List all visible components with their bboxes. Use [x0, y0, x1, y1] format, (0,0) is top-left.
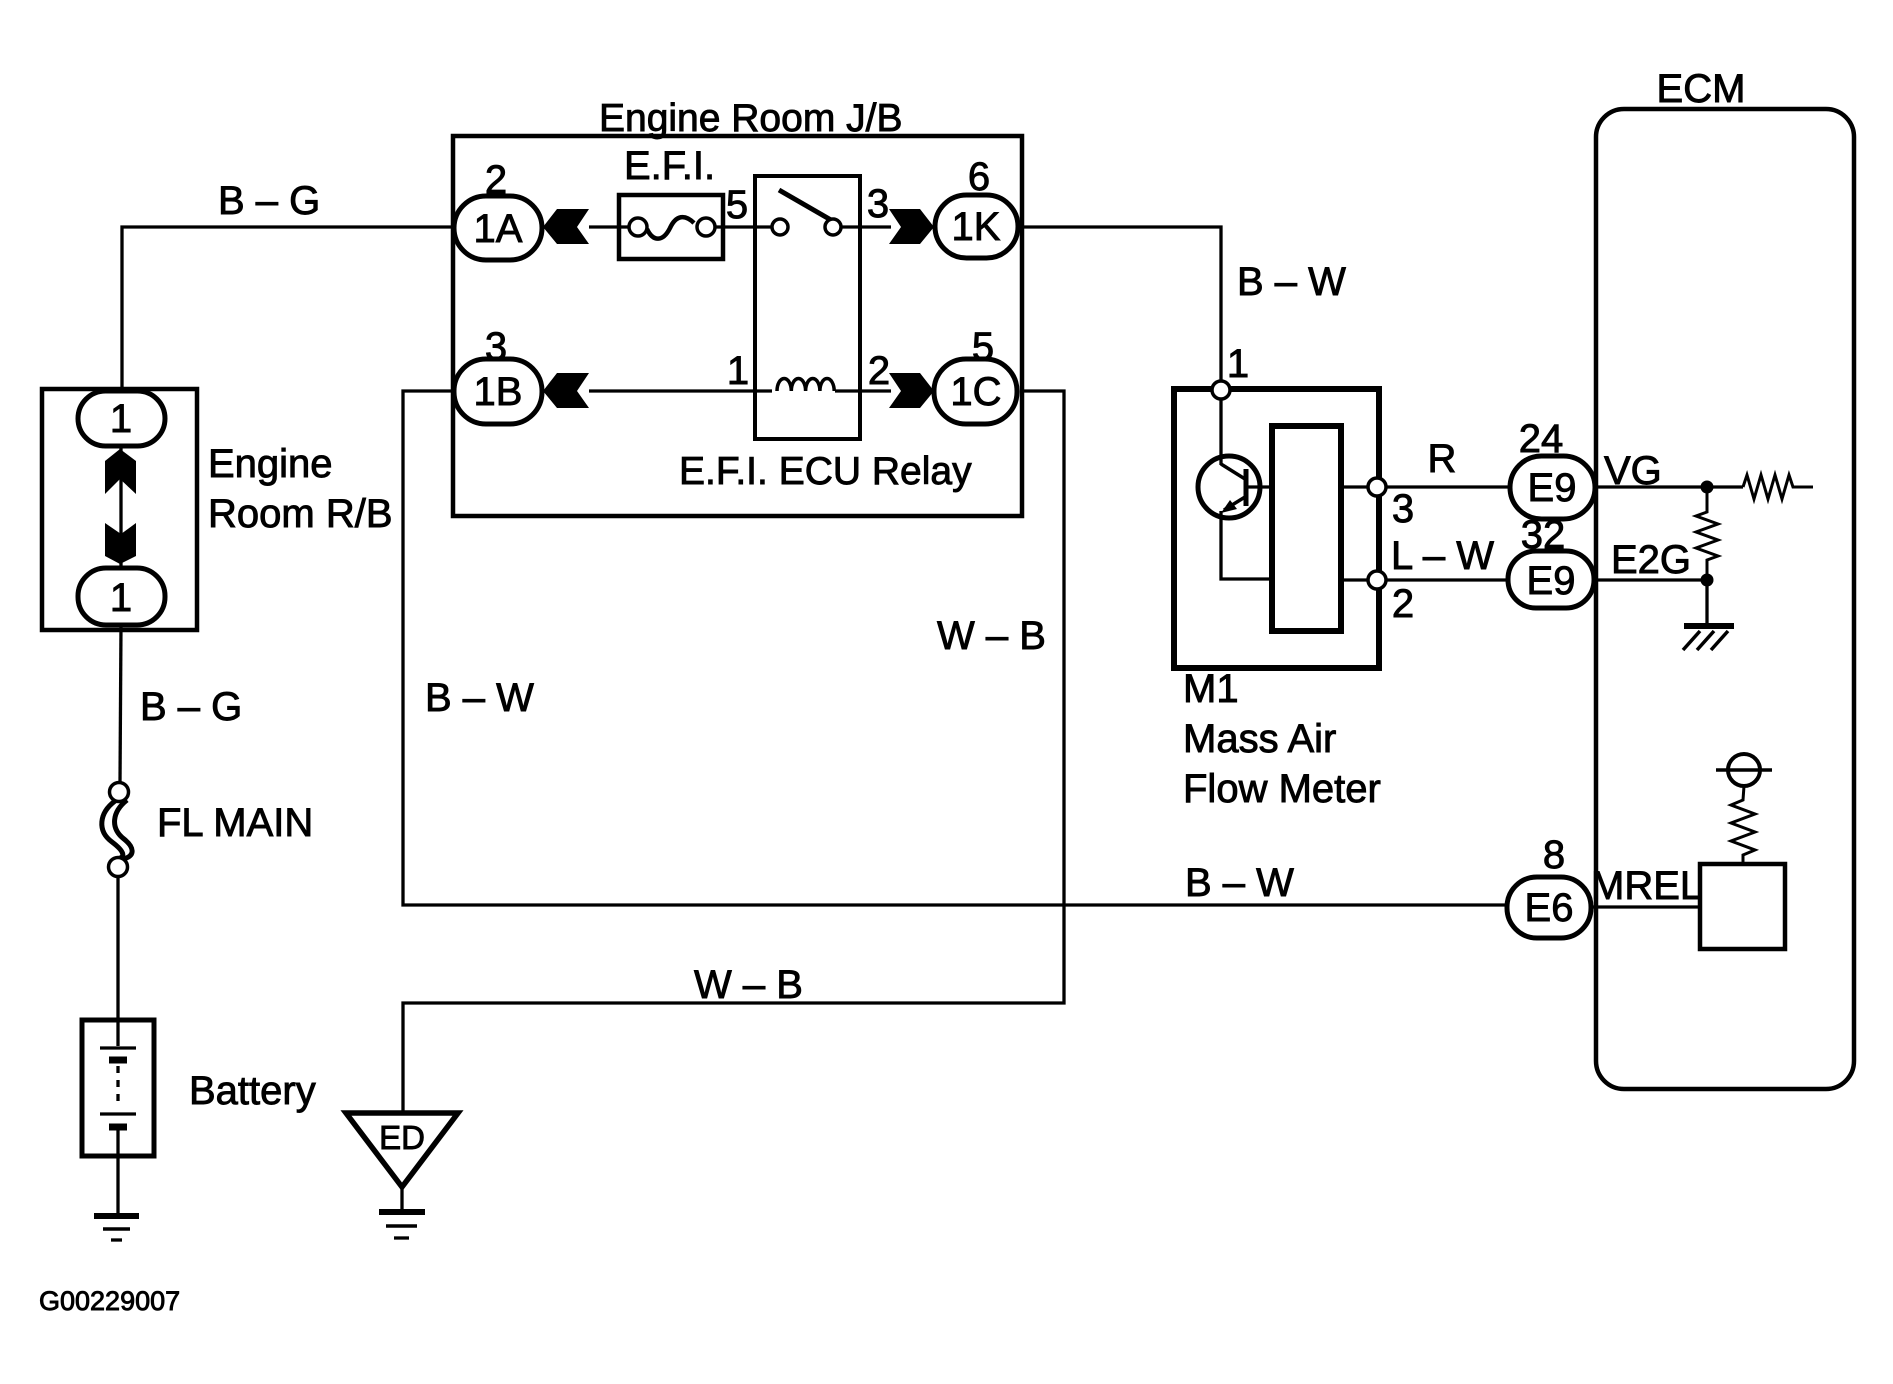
label 32 — [1521, 513, 1566, 557]
svg-text:8: 8 — [1543, 833, 1565, 877]
label B-W (1K to MAF) — [1237, 260, 1346, 304]
relay switch contacts and blade — [772, 190, 860, 235]
svg-text:B – W: B – W — [425, 676, 534, 720]
MAF pin 1 node — [1212, 381, 1230, 399]
svg-text:G00229007: G00229007 — [39, 1286, 180, 1316]
svg-text:5: 5 — [726, 183, 748, 227]
arrow into 1K — [889, 209, 934, 244]
MAF pin 2 node — [1368, 571, 1386, 589]
label VG — [1604, 449, 1662, 493]
svg-text:W – B: W – B — [937, 614, 1046, 658]
svg-text:Mass Air: Mass Air — [1183, 717, 1336, 761]
ground below ED — [379, 1212, 425, 1238]
svg-text:B – W: B – W — [1185, 861, 1294, 905]
wire FL MAIN to battery — [116, 877, 119, 1020]
svg-text:1: 1 — [110, 576, 132, 620]
connector 1 (top of R/B) — [78, 391, 165, 446]
svg-text:L – W: L – W — [1391, 534, 1494, 578]
svg-text:1: 1 — [110, 397, 132, 441]
label pin 2 — [1392, 582, 1414, 626]
svg-text:1A: 1A — [474, 207, 523, 251]
label M1 Mass Air Flow Meter — [1183, 667, 1381, 811]
Engine Room R/B box — [42, 389, 197, 630]
svg-text:5: 5 — [972, 325, 994, 369]
wire B-G from Engine Room R/B to 1A — [122, 227, 454, 391]
driver box in ECM — [1700, 864, 1785, 949]
connector 1K — [935, 195, 1018, 258]
svg-text:Battery: Battery — [189, 1069, 316, 1113]
wire B-W from 1B to E6 MREL — [403, 391, 1507, 905]
svg-text:2: 2 — [485, 158, 507, 202]
svg-text:3: 3 — [1392, 487, 1414, 531]
connector E6 pin 8 — [1507, 877, 1591, 938]
wire coil to 1C arrow — [835, 389, 891, 392]
svg-text:FL MAIN: FL MAIN — [157, 801, 313, 845]
label 24 — [1519, 417, 1564, 461]
connector 1 (bottom of R/B) — [78, 568, 165, 625]
wire transistor emitter to sensing element — [1221, 511, 1272, 579]
svg-text:R: R — [1428, 437, 1457, 481]
node E2G junction — [1701, 574, 1714, 587]
svg-text:E.F.I.: E.F.I. — [624, 144, 715, 188]
relay box E.F.I. ECU Relay — [679, 176, 972, 493]
label B-W (left) — [425, 676, 534, 720]
svg-text:1: 1 — [727, 349, 749, 393]
wire E2G inside ECM — [1594, 578, 1707, 581]
wire L-W from pin2 to E9 — [1386, 578, 1508, 581]
arrow into 1A — [543, 209, 589, 244]
wire element to pin 2 — [1341, 578, 1369, 581]
svg-text:3: 3 — [485, 325, 507, 369]
connector 1C — [934, 359, 1017, 424]
svg-text:1K: 1K — [952, 205, 1001, 249]
power symbol in ECM — [1716, 754, 1772, 786]
battery — [82, 1020, 154, 1156]
pin 2 label of 1A — [485, 158, 507, 202]
svg-text:2: 2 — [868, 349, 890, 393]
svg-text:B – G: B – G — [140, 685, 242, 729]
mass air flow meter box M1 — [1174, 389, 1379, 668]
relay coil — [777, 379, 834, 392]
wire relay to 1K arrow — [860, 225, 891, 228]
MAF pin 3 node — [1368, 478, 1386, 496]
ground below battery — [94, 1216, 139, 1240]
arrow into 1B — [543, 373, 589, 408]
svg-text:Engine: Engine — [208, 442, 333, 486]
svg-text:W – B: W – B — [694, 963, 803, 1007]
svg-text:24: 24 — [1519, 417, 1564, 461]
label ECM — [1657, 67, 1746, 111]
label 8 — [1543, 833, 1565, 877]
svg-text:ECM: ECM — [1657, 67, 1746, 111]
wire ED to ground — [400, 1187, 403, 1209]
pin 5 label of 1C — [972, 325, 994, 369]
wire MREL to driver — [1591, 905, 1700, 908]
wire 1B arrow to relay coil — [589, 389, 772, 392]
label pin 1 of MAF — [1227, 342, 1249, 386]
wire to chassis ground — [1705, 580, 1708, 624]
arrow up in R/B — [105, 449, 136, 494]
fusible link FL MAIN — [102, 783, 132, 877]
label B-G (top) — [218, 179, 320, 223]
connector E9 pin 32 — [1508, 551, 1594, 608]
label MREL — [1591, 864, 1702, 908]
svg-text:B – G: B – G — [218, 179, 320, 223]
svg-text:Room R/B: Room R/B — [208, 492, 393, 536]
connector E9 pin 24 — [1510, 456, 1595, 519]
resistor vertical VG to E2G — [1696, 487, 1718, 580]
wire fuse to relay — [723, 225, 772, 228]
svg-text:1B: 1B — [474, 370, 523, 414]
transistor in MAF — [1198, 456, 1272, 518]
pin 1 label of relay coil — [727, 349, 749, 393]
svg-text:E9: E9 — [1527, 559, 1576, 603]
svg-text:E9: E9 — [1528, 466, 1577, 510]
svg-text:E.F.I. ECU Relay: E.F.I. ECU Relay — [679, 450, 972, 493]
svg-text:2: 2 — [1392, 582, 1414, 626]
svg-text:E2G: E2G — [1611, 538, 1691, 582]
wire W-B from 1C to ED ground — [403, 391, 1064, 1113]
wire R/B to FL MAIN — [120, 625, 121, 783]
resistor horizontal on VG — [1743, 475, 1813, 499]
sensing element of MAF — [1272, 426, 1341, 631]
label G00229007 — [39, 1286, 180, 1316]
svg-text:1C: 1C — [950, 370, 1001, 414]
svg-text:6: 6 — [968, 155, 990, 199]
svg-text:B – W: B – W — [1237, 260, 1346, 304]
wire R from pin3 to E9 — [1386, 485, 1510, 488]
label Engine Room R/B — [208, 442, 393, 536]
svg-text:3: 3 — [867, 182, 889, 226]
label Battery — [189, 1069, 316, 1113]
wire battery to ground — [116, 1156, 119, 1214]
svg-text:Engine Room J/B: Engine Room J/B — [599, 97, 903, 140]
wire VG inside ECM — [1595, 485, 1743, 488]
connector 1B — [454, 359, 542, 424]
pin 3 label of 1B — [485, 325, 507, 369]
label B-G (lower) — [140, 685, 242, 729]
label W-B (lower) — [694, 963, 803, 1007]
pin 6 label of 1K — [968, 155, 990, 199]
label L-W — [1391, 534, 1494, 578]
label W-B (upper) — [937, 614, 1046, 658]
svg-text:MREL: MREL — [1591, 864, 1702, 908]
wire pin1 to transistor — [1219, 399, 1222, 465]
pin 5 label of relay switch — [726, 183, 748, 227]
svg-text:Flow Meter: Flow Meter — [1183, 767, 1381, 811]
Engine Room J/B box — [453, 97, 1022, 516]
arrow down in R/B — [105, 523, 136, 564]
resistor vertical above driver — [1731, 786, 1755, 864]
label R — [1428, 437, 1457, 481]
connector 1A — [454, 196, 542, 260]
svg-text:M1: M1 — [1183, 667, 1239, 711]
svg-text:1: 1 — [1227, 342, 1249, 386]
chassis ground in ECM — [1683, 626, 1734, 650]
ground point ED — [346, 1113, 458, 1187]
wire element to pin 3 — [1341, 485, 1369, 488]
svg-text:32: 32 — [1521, 513, 1566, 557]
svg-text:ED: ED — [379, 1119, 425, 1156]
label pin 3 — [1392, 487, 1414, 531]
pin 3 label of relay switch — [867, 182, 889, 226]
ECM box — [1596, 109, 1854, 1089]
arrow into 1C — [889, 373, 934, 408]
wire 1A arrow to EFI fuse — [589, 225, 621, 228]
node VG junction — [1701, 481, 1714, 494]
junction wire in R/B — [119, 446, 122, 568]
fuse E.F.I. — [619, 144, 723, 259]
label B-W (right near E6) — [1185, 861, 1294, 905]
label E2G — [1611, 538, 1691, 582]
pin 2 label of relay coil — [868, 349, 890, 393]
svg-text:E6: E6 — [1525, 886, 1574, 930]
label FL MAIN — [157, 801, 313, 845]
wire B-W from 1K to MAF pin 1 — [1022, 227, 1221, 390]
